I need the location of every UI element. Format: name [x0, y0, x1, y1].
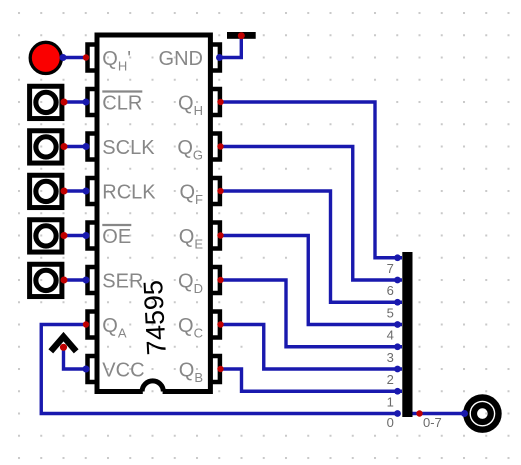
button SER — [30, 264, 62, 296]
node pin VCC wire end — [83, 366, 90, 373]
wire QF to splitter bit5 — [221, 191, 403, 302]
node pin QA (red) — [83, 321, 89, 327]
pin QH' (left 1) — [88, 45, 98, 71]
node pin CLR wire end — [83, 99, 90, 106]
button CLR — [30, 86, 62, 118]
node splitter bit4 — [394, 321, 401, 328]
node output port wire end — [461, 410, 468, 417]
svg-text:3: 3 — [387, 350, 394, 365]
bus splitter bar — [402, 252, 412, 417]
pin QA (left 7) — [88, 312, 98, 338]
LED output on QH' — [30, 42, 61, 73]
node button SCLK output (red) — [61, 143, 68, 150]
node pin SCLK wire end — [83, 143, 90, 150]
pin label OE with overline — [102, 225, 131, 248]
pin SCLK (left 3) — [88, 134, 98, 160]
node pin RCLK wire end — [83, 188, 90, 195]
svg-text:GND: GND — [159, 48, 203, 70]
node bus output (red) — [416, 410, 422, 416]
output port 0-7 (bullseye) — [466, 398, 498, 430]
node splitter bit1 — [394, 388, 401, 395]
node pin QE (red) — [217, 232, 223, 238]
node splitter bit0 — [394, 410, 401, 417]
wire QA feedback left-down-bottom to splitter bit0 — [41, 325, 397, 414]
svg-text:QH': QH' — [102, 48, 131, 74]
pin SER (left 6) — [88, 267, 98, 293]
wire QG to splitter bit6 — [221, 147, 403, 281]
pin QD (right 6) — [210, 267, 220, 293]
pin QE (right 5) — [210, 223, 220, 249]
svg-text:4: 4 — [387, 328, 394, 343]
wire QB to splitter bit1 — [221, 369, 403, 391]
pin CLR (left 2) — [88, 89, 98, 115]
node pin QH' (red) — [83, 54, 89, 60]
wire QD to splitter bit3 — [221, 280, 403, 347]
wire QH to splitter bit7 — [221, 102, 403, 258]
node pin QG (red) — [217, 143, 223, 149]
wire QE to splitter bit4 — [221, 236, 403, 325]
clock edge arrow at QA — [51, 337, 76, 352]
svg-text:7: 7 — [387, 261, 394, 276]
node button OE output (red) — [61, 232, 68, 239]
node pin GND wire end — [216, 54, 223, 61]
button RCLK — [30, 175, 62, 207]
node LED wire end — [60, 54, 67, 61]
node pin QF (red) — [217, 188, 223, 194]
svg-text:0: 0 — [387, 415, 394, 430]
wire arrow to VCC pin — [64, 347, 87, 369]
pin QF (right 4) — [210, 178, 220, 204]
button SCLK — [30, 131, 62, 163]
node pin QB (red) — [217, 366, 223, 372]
pin QB (right 8) — [210, 356, 220, 382]
svg-text:2: 2 — [387, 372, 394, 387]
pin VCC (left 8) — [88, 356, 98, 382]
node pin QD (red) — [217, 277, 223, 283]
pin RCLK (left 4) — [88, 178, 98, 204]
node button CLR output (red) — [61, 99, 68, 106]
wire button SER to pin SER — [64, 278, 86, 281]
pin label CLR with overline — [102, 92, 142, 115]
svg-text:CLR: CLR — [102, 93, 142, 115]
wire button CLR to pin CLR — [64, 100, 86, 103]
ground rail — [227, 32, 256, 39]
node button SER output (red) — [61, 277, 68, 284]
wire button SCLK to pin SCLK — [64, 145, 86, 148]
node ground rail (red) — [238, 32, 245, 39]
IC bottom notch — [142, 381, 163, 394]
node pin SER wire end — [83, 277, 90, 284]
wire QC to splitter bit2 — [221, 325, 403, 370]
pin QG (right 3) — [210, 134, 220, 160]
IC U1 74595 body — [97, 35, 210, 392]
node button RCLK output (red) — [61, 188, 68, 195]
svg-text:RCLK: RCLK — [102, 182, 156, 204]
node splitter bit7 — [394, 254, 401, 261]
button OE — [30, 220, 62, 252]
wire GND pin to ground rail — [220, 36, 242, 58]
svg-text:OE: OE — [102, 226, 131, 248]
wire button RCLK to pin RCLK — [64, 189, 86, 192]
node splitter bit3 — [394, 343, 401, 350]
pin GND (right 1) — [210, 45, 220, 71]
node pin QH (red) — [217, 99, 223, 105]
node splitter bit5 — [394, 299, 401, 306]
svg-text:6: 6 — [387, 283, 394, 298]
svg-text:74595: 74595 — [138, 279, 172, 356]
wire LED to pin QH' — [63, 56, 86, 59]
node pin OE wire end — [83, 232, 90, 239]
pin QH (right 2) — [210, 89, 220, 115]
node splitter bit2 — [394, 366, 401, 373]
svg-text:VCC: VCC — [102, 360, 144, 382]
svg-text:0-7: 0-7 — [423, 415, 442, 430]
node splitter bit6 — [394, 277, 401, 284]
wire button OE to pin OE — [64, 234, 86, 237]
svg-text:1: 1 — [387, 394, 394, 409]
svg-text:SCLK: SCLK — [102, 137, 155, 159]
pin QC (right 7) — [210, 312, 220, 338]
svg-text:5: 5 — [387, 305, 394, 320]
wire splitter bus output to output port — [410, 412, 465, 415]
node arrow output (red) — [60, 344, 67, 351]
pin OE (left 5) — [88, 223, 98, 249]
node pin QC (red) — [217, 321, 223, 327]
